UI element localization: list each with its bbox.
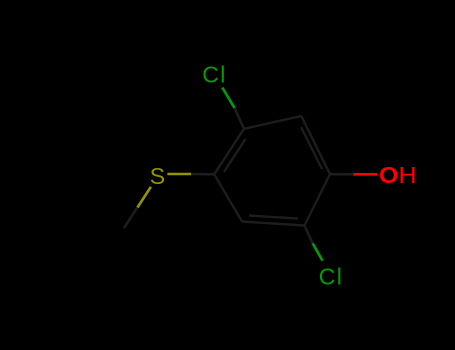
bond C1-O: dark half [330, 173, 354, 176]
bond S-CH3: olive half [137, 187, 151, 208]
bond C1-O: red half [354, 173, 378, 176]
svg-text:Cl: Cl [202, 62, 226, 88]
bond S-CH3: dark half [124, 208, 138, 229]
svg-text:Cl: Cl [319, 263, 343, 289]
double bond inner line C5=C4 [224, 139, 246, 172]
svg-text:OH: OH [379, 162, 417, 188]
ring edge C4-C3 (V2-V3) [214, 174, 242, 221]
benzene ring [214, 116, 330, 226]
ring edge C6-C5 (V6-V1) [244, 116, 301, 129]
ring edge C3-C2 (V3-V4) [242, 222, 305, 226]
bond C2-Cl bottom: green half [313, 243, 323, 260]
ring edge C5-C4 (V1-V2) [214, 129, 244, 175]
bond C4-S: dark half [191, 173, 214, 176]
bond C4-S: olive half [167, 173, 191, 176]
double bond inner line C3=C2 [249, 216, 298, 219]
bond C5-Cl top: green half [222, 88, 234, 108]
ring edge C1-C6 (V5-V6) [301, 116, 330, 174]
bond C2-Cl bottom: dark half [305, 226, 313, 244]
svg-text:S: S [150, 163, 165, 189]
double bond inner line C1=C6 [301, 127, 322, 169]
bond C5-Cl top: dark half [235, 108, 245, 129]
ring edge C2-C1 (V4-V5) [305, 174, 331, 225]
